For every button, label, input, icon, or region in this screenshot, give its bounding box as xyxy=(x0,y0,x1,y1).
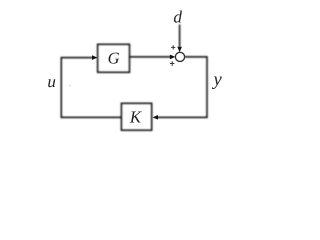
svg-text:y: y xyxy=(211,69,222,90)
svg-text:G: G xyxy=(108,48,120,67)
svg-text:K: K xyxy=(129,108,142,127)
svg-text:u: u xyxy=(47,72,56,91)
svg-text:d: d xyxy=(173,7,182,26)
